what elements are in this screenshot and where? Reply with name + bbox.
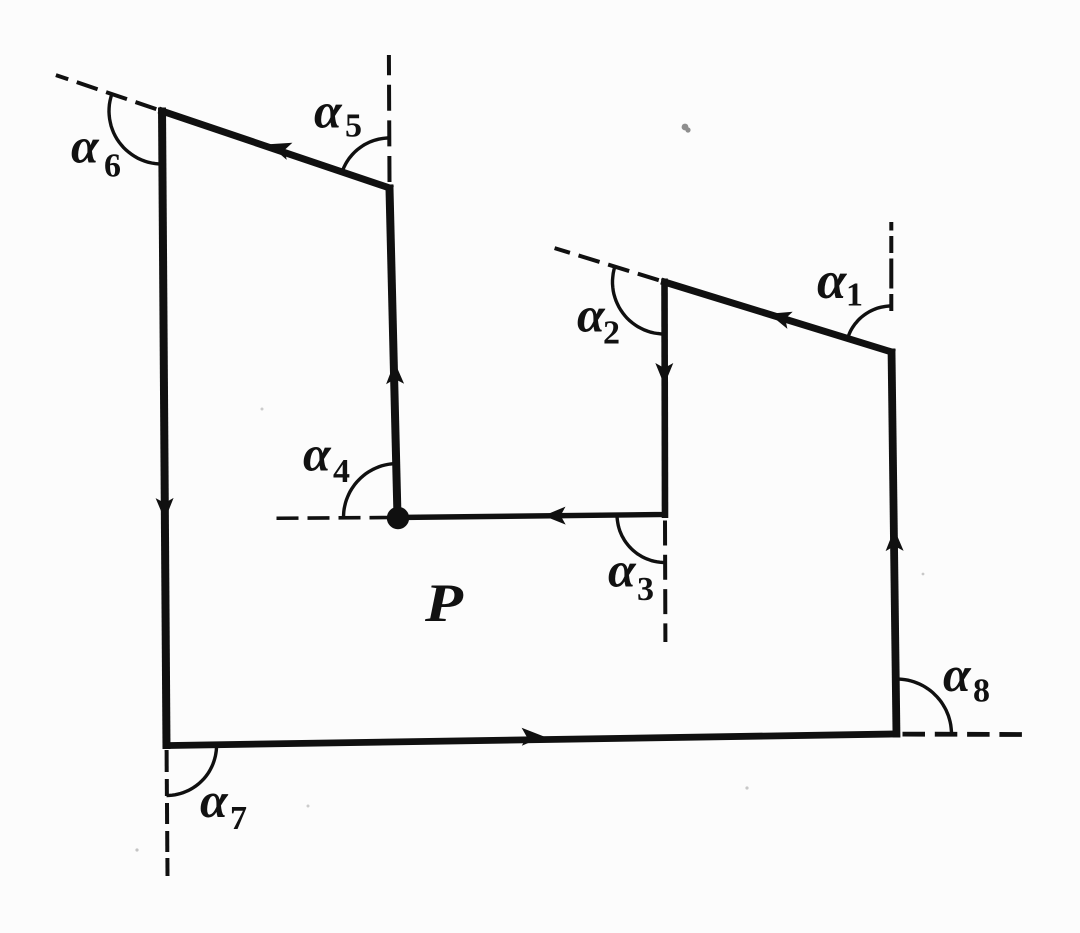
svg-text:6: 6 [104,148,121,185]
dashed extension at vertex D (alpha4) [271,516,392,520]
dashed extension at vertex G (alpha7) [165,750,170,876]
vertex dot at D (base point) [387,507,409,529]
dashed extension at vertex A (alpha1) [889,222,893,311]
wire: edge E-F (top-left slant) [159,110,393,189]
arrowhead on edge H->A [886,529,904,551]
arrowhead on edge B->C [655,363,673,385]
svg-text:2: 2 [603,315,620,352]
svg-text:α: α [314,83,343,139]
angle arc alpha6 [109,94,162,164]
angle arc alpha2 [613,267,665,334]
svg-text:α: α [577,287,606,343]
label alpha1 [817,252,863,314]
svg-text:5: 5 [345,108,362,145]
svg-text:α: α [71,118,100,174]
label alpha3 [608,542,654,609]
dashed extension at vertex C (alpha3) [663,521,667,643]
angle arc alpha5 [342,138,389,172]
arrowhead on edge A->B [769,312,793,329]
svg-text:α: α [200,772,229,828]
dashed extension at vertex H (alpha8) [903,732,1023,737]
wire: edge B-C (middle-right vertical) [661,279,668,519]
svg-text:3: 3 [637,571,654,608]
wire: edge A-B (top-right slant) [661,281,895,353]
label alpha6 [71,118,121,185]
svg-text:α: α [943,646,972,702]
arrowhead on edge D->E [386,362,404,384]
angle arc alpha1 [848,306,892,338]
angle arc alpha8 [896,679,952,734]
svg-text:4: 4 [333,453,350,490]
svg-text:7: 7 [230,800,247,837]
arrowhead on edge F->G [156,498,174,520]
polygon boundary A-B-C-D-E-F-G-H [162,111,897,746]
wire: edge D-E (middle vertical) [389,185,397,522]
wire: edge H-A (right vertical) [892,349,897,738]
label alpha4 [303,426,350,491]
label alpha5 [314,83,362,145]
dashed extension at vertex E (alpha5) [387,55,392,182]
angle arc alpha3 [617,515,665,563]
label alpha2 [577,287,620,352]
label alpha7 [200,772,247,837]
svg-text:α: α [817,252,847,310]
svg-text:α: α [608,542,637,598]
svg-text:α: α [303,426,332,482]
dashed extension at vertex B (alpha2) [555,248,659,280]
scan noise specks [135,124,924,852]
dashed extension at vertex F (alpha6) [56,75,156,109]
arrowhead on edge E->F [269,143,293,160]
angle arc alpha7 [167,745,217,796]
wire: edge F-G (left vertical) [162,108,167,750]
wire: edge G-H (bottom horizontal) [163,734,900,746]
arrowhead on edge G->H [522,728,544,746]
svg-text:1: 1 [846,277,863,314]
svg-text:P: P [424,573,464,633]
angle arc alpha4 [344,464,397,518]
arrowhead on edge C->D [544,507,566,525]
svg-text:8: 8 [973,673,990,710]
label alpha8 [943,646,990,710]
